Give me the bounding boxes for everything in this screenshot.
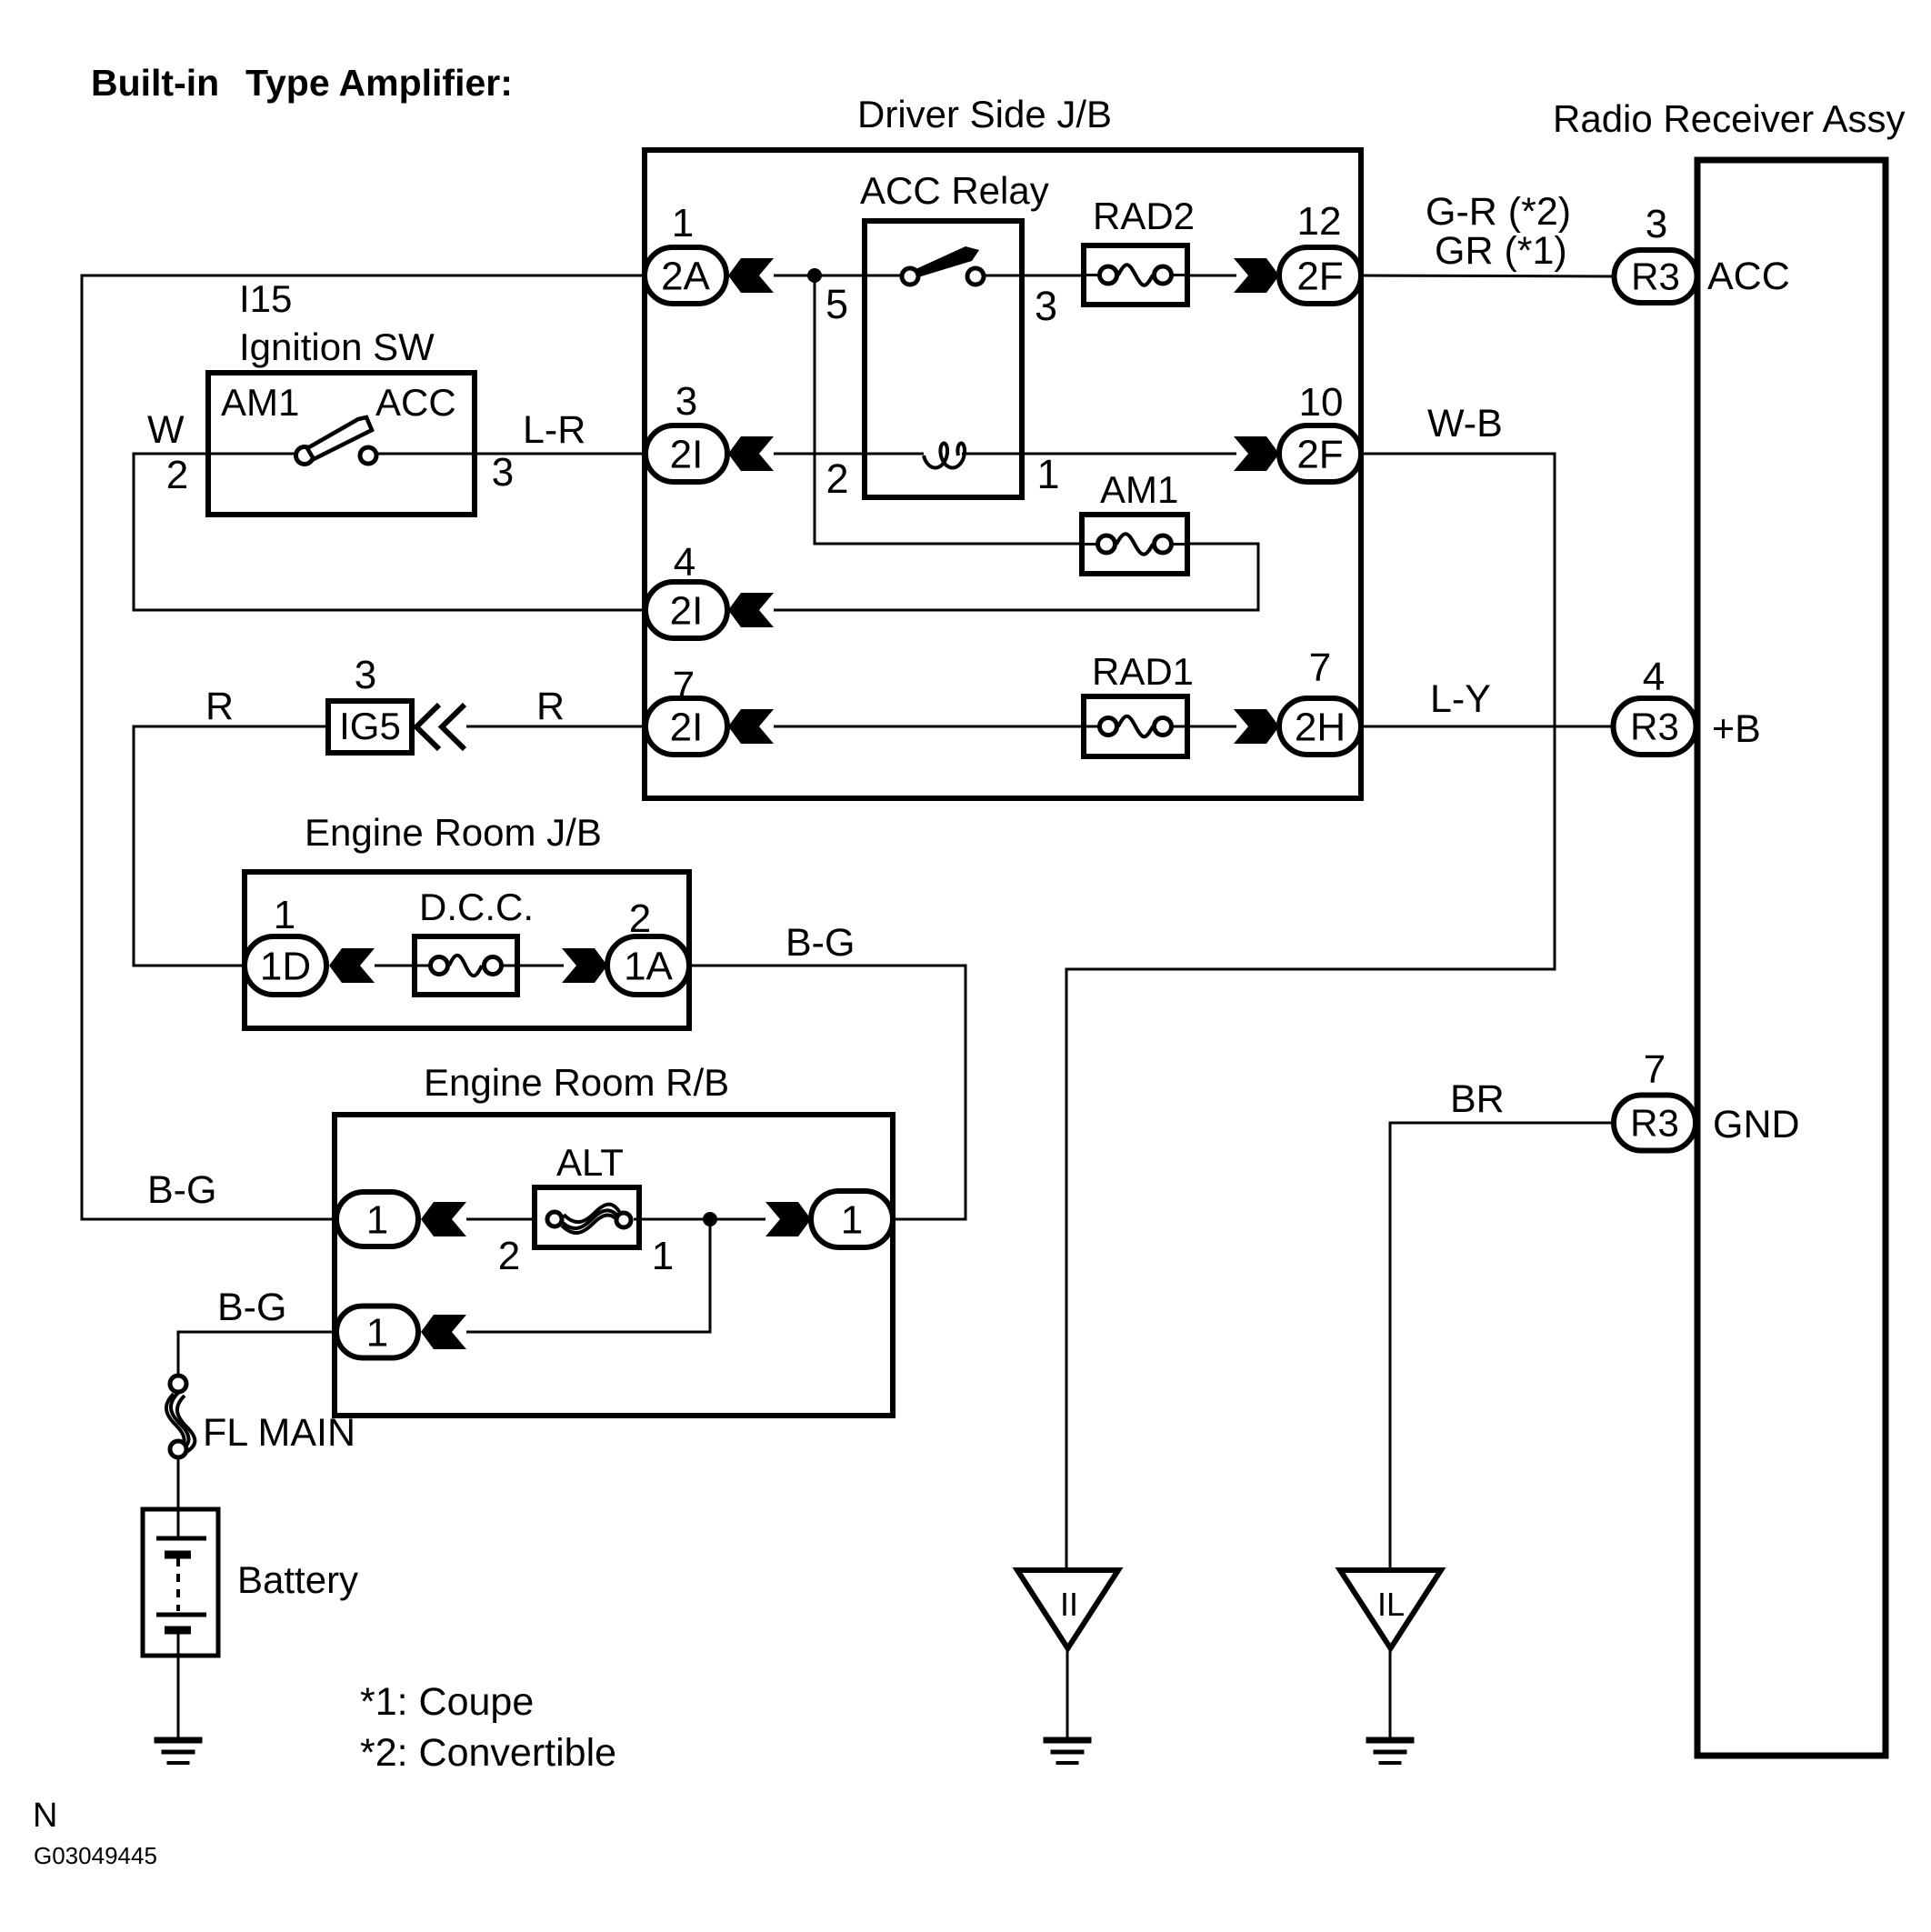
svg-text:L-R: L-R: [523, 408, 585, 452]
switch box Ignition SW: [208, 373, 475, 515]
connector 1D: [245, 936, 326, 995]
svg-text:AM1: AM1: [221, 381, 299, 424]
svg-text:2I: 2I: [670, 432, 704, 476]
wire arrow to ALT fuse: [466, 1218, 545, 1221]
svg-text:FL MAIN: FL MAIN: [203, 1411, 355, 1455]
pin 1 label (ALT): [652, 1234, 674, 1278]
label R right: [536, 685, 565, 728]
pin 3 label (ignition): [492, 450, 514, 495]
svg-text:3: 3: [1035, 283, 1057, 329]
connector 1A: [607, 936, 689, 995]
svg-text:Type Amplifier:: Type Amplifier:: [245, 62, 513, 104]
label L-Y: [1430, 677, 1491, 721]
svg-text:RAD1: RAD1: [1092, 650, 1194, 693]
ignition contact left: [296, 447, 314, 465]
note *1 Coupe: [360, 1680, 534, 1724]
wire AM1 branch: junction down, right to AM1 fuse, right, down, left to 2I(4): [774, 275, 1258, 610]
connector 2I pin4: [645, 582, 727, 638]
label RAD2: [1093, 195, 1195, 237]
svg-text:R3: R3: [1630, 706, 1679, 748]
svg-text:*2: Convertible: *2: Convertible: [360, 1731, 616, 1775]
label I15: [239, 277, 292, 320]
pin 7 label above 2H: [1309, 646, 1331, 690]
wire relay pin3 lead: [984, 275, 1022, 277]
svg-text:1: 1: [274, 893, 295, 937]
connector R3 ACC: [1615, 250, 1697, 303]
arrow into 2I(4): [728, 593, 774, 627]
ignition contact right: [360, 447, 376, 464]
junction block Engine Room J/B box: [245, 872, 689, 1028]
label ACC (radio pin): [1707, 255, 1790, 298]
connector IG5 box: [328, 701, 412, 753]
pin 2 label above 1A: [629, 896, 651, 941]
label GR (*1): [1435, 229, 1567, 273]
wire ignition pin3 to 2I(3): [377, 453, 645, 455]
wire 1D arrow to D.C.C.: [375, 965, 415, 967]
relay block Engine Room R/B box: [335, 1115, 893, 1416]
svg-text:1: 1: [366, 1310, 388, 1355]
wire RAD2 to arrow: [1187, 275, 1236, 277]
fuse D.C.C.: [415, 936, 517, 995]
pin 4 label above 2I(4): [674, 540, 695, 585]
chevrons at IG5: [416, 705, 465, 749]
battery plate short thick bottom: [165, 1627, 191, 1635]
ground (battery): [155, 1740, 203, 1763]
svg-text:1A: 1A: [624, 944, 673, 988]
svg-text:II: II: [1060, 1586, 1078, 1623]
label Engine Room R/B: [424, 1061, 729, 1104]
wire B-G from 1A down to Engine Room R/B right connector: [689, 966, 965, 1219]
connector R3 +B: [1614, 698, 1696, 755]
svg-text:1D: 1D: [260, 944, 311, 988]
label G03049445: [34, 1842, 157, 1869]
label B-G (far left): [147, 1168, 216, 1212]
ground (IL): [1366, 1740, 1415, 1763]
label L-R: [523, 408, 585, 452]
label Radio Receiver Assy: [1553, 97, 1906, 140]
svg-text:Built-in: Built-in: [91, 62, 219, 104]
svg-text:W-B: W-B: [1427, 402, 1503, 445]
svg-text:5: 5: [825, 281, 848, 327]
connector 1 (R/B bottom): [336, 1306, 418, 1358]
connector 2I pin3: [645, 425, 727, 482]
label Battery: [237, 1558, 358, 1601]
wire relay coil to arrow at 2F(10): [962, 453, 1236, 455]
wire row A arrow tail to ACC relay: [774, 275, 865, 277]
label D.C.C.: [419, 886, 534, 928]
svg-text:W: W: [147, 408, 185, 452]
connector R3 GND: [1614, 1096, 1696, 1151]
label G-R (*2): [1426, 190, 1571, 234]
svg-text:Engine Room R/B: Engine Room R/B: [424, 1061, 729, 1104]
wire relay to RAD2: [1022, 275, 1084, 277]
fusible link ALT element: [547, 1205, 631, 1233]
label Engine Room J/B: [305, 811, 602, 854]
svg-text:R3: R3: [1631, 255, 1680, 298]
label ALT: [556, 1141, 624, 1184]
component Radio Receiver Assy box: [1697, 160, 1886, 1756]
label W: [147, 408, 185, 452]
svg-text:IG5: IG5: [339, 705, 401, 747]
wire junction down to bottom row: [466, 1219, 710, 1332]
svg-text:+B: +B: [1712, 707, 1761, 751]
arrow out of 2A: [728, 258, 774, 293]
pin 7 label above R3 GND: [1644, 1047, 1666, 1092]
arrow into 1A: [562, 948, 607, 983]
node junction dot at pin 5 branch: [807, 268, 822, 283]
svg-text:D.C.C.: D.C.C.: [419, 886, 534, 928]
label N: [33, 1797, 57, 1835]
svg-text:1: 1: [366, 1197, 388, 1242]
arrow into 2H(7): [1234, 709, 1279, 744]
wire W-B from 2F(10) to ground II: [1066, 454, 1555, 1570]
fusible link ALT box: [535, 1187, 639, 1247]
svg-text:2I: 2I: [670, 588, 704, 633]
ground point II triangle: [1017, 1570, 1118, 1648]
svg-text:B-G: B-G: [785, 921, 855, 965]
pin 3 label above 2I(3): [675, 379, 697, 424]
label ACC (ignition terminal): [375, 381, 456, 424]
pin 1 label above 1D: [274, 893, 295, 937]
arrow into R/B right 1: [765, 1202, 811, 1236]
svg-text:1: 1: [672, 201, 694, 245]
label AM1 (ignition terminal): [221, 381, 299, 424]
wire W from ignition pin2 left and down to 2I(4) row: [134, 454, 645, 610]
wire L-Y to radio +B: [1361, 726, 1614, 728]
battery box: [143, 1509, 218, 1656]
svg-text:2: 2: [166, 453, 188, 497]
arrow into 2F(10): [1234, 436, 1279, 471]
label RAD1: [1092, 650, 1194, 693]
pin 3 label above IG5: [355, 653, 376, 697]
svg-text:1: 1: [1036, 451, 1059, 497]
svg-text:12: 12: [1297, 199, 1342, 244]
pin 3 label above R3 ACC: [1646, 202, 1667, 246]
pin 2 label (relay coil): [825, 455, 848, 502]
battery plate short thick top: [165, 1551, 191, 1559]
pin 4 label above R3 +B: [1643, 655, 1665, 699]
label R left: [205, 685, 234, 728]
svg-text:IL: IL: [1377, 1586, 1405, 1623]
arrow into 1D: [329, 948, 375, 983]
connector 2F pin12: [1279, 247, 1361, 304]
wire 2I(7) to IG5 chevrons: [466, 726, 645, 728]
svg-text:2I: 2I: [670, 705, 704, 749]
label AM1 (fuse): [1100, 468, 1178, 511]
pin 1 label (relay coil): [1036, 451, 1059, 497]
connector 1 (R/B left): [336, 1192, 418, 1246]
svg-text:2H: 2H: [1295, 705, 1346, 749]
arrow out of R/B left 1: [421, 1202, 466, 1236]
svg-text:4: 4: [674, 540, 695, 585]
connector 1 (R/B right): [811, 1191, 893, 1247]
pin 10 label above 2F: [1299, 380, 1344, 425]
label Driver Side J/B: [857, 93, 1112, 135]
svg-text:2F: 2F: [1296, 432, 1343, 476]
node junction dot after ALT: [703, 1212, 717, 1226]
svg-text:10: 10: [1299, 380, 1344, 425]
label B-G (right of 1A): [785, 921, 855, 965]
svg-text:Ignition SW: Ignition SW: [239, 325, 435, 368]
wire ALT to R/B right 1: [634, 1218, 765, 1221]
ground point IL triangle: [1340, 1570, 1441, 1648]
ground (II): [1044, 1740, 1092, 1763]
svg-text:ACC Relay: ACC Relay: [860, 169, 1049, 212]
svg-text:G03049445: G03049445: [34, 1842, 157, 1869]
pin 3 label (relay): [1035, 283, 1057, 329]
title: [91, 62, 513, 104]
wire IG5 to left vertical down to 1D: [134, 726, 328, 966]
relay box ACC Relay: [865, 221, 1022, 497]
fuse RAD1: [1084, 696, 1187, 756]
wire 2I(7) arrow to RAD1: [774, 726, 1084, 728]
wire BR from R3 GND to IL: [1390, 1123, 1614, 1570]
junction block Driver Side J/B box: [645, 150, 1361, 798]
svg-text:2: 2: [498, 1234, 520, 1278]
svg-text:4: 4: [1643, 655, 1665, 699]
svg-text:3: 3: [355, 653, 376, 697]
pin 2 label (ALT): [498, 1234, 520, 1278]
svg-text:ACC: ACC: [1707, 255, 1790, 298]
svg-text:*1: Coupe: *1: Coupe: [360, 1680, 534, 1724]
svg-text:R: R: [536, 685, 565, 728]
relay switch lever: [914, 246, 979, 277]
pin 2 label (ignition): [166, 453, 188, 497]
svg-text:3: 3: [492, 450, 514, 495]
svg-text:N: N: [33, 1797, 57, 1835]
svg-text:G-R (*2): G-R (*2): [1426, 190, 1571, 234]
connector 2F pin10: [1279, 425, 1361, 482]
svg-text:2F: 2F: [1296, 254, 1343, 298]
wire G-R to radio: [1361, 275, 1615, 276]
wire IL to ground: [1389, 1648, 1392, 1740]
fuse RAD2: [1084, 245, 1187, 305]
svg-text:3: 3: [675, 379, 697, 424]
ignition switch lever: [307, 417, 372, 459]
svg-text:2A: 2A: [661, 254, 710, 298]
wire relay pin5 lead: [865, 275, 902, 277]
relay contact right: [967, 268, 984, 285]
svg-text:3: 3: [1646, 202, 1667, 246]
svg-text:RAD2: RAD2: [1093, 195, 1195, 237]
label FL MAIN: [203, 1411, 355, 1455]
svg-text:AM1: AM1: [1100, 468, 1178, 511]
arrow into 2F(12): [1234, 258, 1279, 293]
svg-text:Radio Receiver Assy: Radio Receiver Assy: [1553, 97, 1906, 140]
svg-text:ACC: ACC: [375, 381, 456, 424]
relay contact left: [902, 268, 918, 285]
svg-text:R3: R3: [1630, 1102, 1679, 1145]
connector 2I pin7: [645, 698, 727, 755]
relay coil: [924, 444, 965, 468]
arrow out of R/B bottom 1: [421, 1315, 466, 1349]
wire FL MAIN to battery: [177, 1458, 180, 1538]
svg-text:B-G: B-G: [217, 1286, 286, 1329]
svg-text:Engine Room J/B: Engine Room J/B: [305, 811, 602, 854]
label ACC Relay: [860, 169, 1049, 212]
arrow out of 2I(3): [728, 436, 774, 471]
label W-B: [1427, 402, 1503, 445]
wire battery to ground: [177, 1630, 180, 1740]
label +B (radio pin): [1712, 707, 1761, 751]
svg-text:GND: GND: [1713, 1103, 1800, 1146]
wire 2A to far-left vertical down to Engine Room R/B: [82, 275, 645, 1219]
battery plate long bottom: [156, 1613, 206, 1617]
svg-text:I15: I15: [239, 277, 292, 320]
svg-text:BR: BR: [1450, 1077, 1505, 1121]
label GND (radio pin): [1713, 1103, 1800, 1146]
battery dashed cell line: [176, 1558, 180, 1611]
svg-text:7: 7: [1309, 646, 1331, 690]
connector 2H pin7: [1279, 698, 1361, 755]
pin 7 label above 2I(7): [673, 664, 695, 708]
svg-text:GR (*1): GR (*1): [1435, 229, 1567, 273]
svg-text:B-G: B-G: [147, 1168, 216, 1212]
svg-text:Battery: Battery: [237, 1558, 358, 1601]
svg-text:R: R: [205, 685, 234, 728]
note *2 Convertible: [360, 1731, 616, 1775]
label Ignition SW: [239, 325, 435, 368]
wire battery B-G into bottom 1: [178, 1332, 336, 1375]
fusible link FL MAIN: [166, 1376, 195, 1457]
fuse AM1: [1082, 515, 1187, 574]
svg-text:7: 7: [1644, 1047, 1666, 1092]
pin 12 label above 2F: [1297, 199, 1342, 244]
label B-G (bottom): [217, 1286, 286, 1329]
wire II to ground: [1066, 1648, 1069, 1740]
wire 2I(3) arrow to relay coil: [774, 453, 924, 455]
wire D.C.C. to arrow: [517, 965, 564, 967]
connector 2A: [645, 247, 726, 304]
svg-text:1: 1: [652, 1234, 674, 1278]
svg-text:Driver Side J/B: Driver Side J/B: [857, 93, 1112, 135]
svg-text:L-Y: L-Y: [1430, 677, 1491, 721]
pin 1 label above 2A: [672, 201, 694, 245]
svg-text:1: 1: [841, 1197, 863, 1242]
battery plate long top: [156, 1537, 206, 1541]
label BR: [1450, 1077, 1505, 1121]
wire RAD1 to arrow: [1187, 726, 1236, 728]
pin 5 label: [825, 281, 848, 327]
svg-text:2: 2: [825, 455, 848, 502]
arrow out of 2I(7): [728, 709, 774, 744]
svg-text:ALT: ALT: [556, 1141, 624, 1184]
